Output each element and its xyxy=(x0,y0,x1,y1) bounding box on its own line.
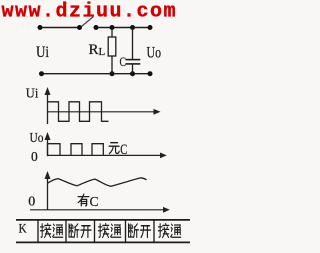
table bottom border xyxy=(16,241,190,243)
table divider 4 xyxy=(125,219,127,243)
svg-text:0: 0 xyxy=(31,149,38,164)
node: output top terminal xyxy=(148,25,153,30)
svg-text:C: C xyxy=(120,142,127,158)
waveform1 horizontal axis xyxy=(48,109,161,115)
svg-text:K: K xyxy=(19,221,28,236)
wire top-left segment xyxy=(40,27,80,29)
waveform1 vertical axis xyxy=(45,87,51,124)
table divider 3 xyxy=(94,219,96,243)
waveform2 vertical axis xyxy=(45,132,51,156)
capacitor C xyxy=(126,28,141,74)
cell 断开 1 xyxy=(69,224,79,238)
waveform2 horizontal axis xyxy=(48,153,167,159)
svg-text:Ui: Ui xyxy=(36,44,49,61)
svg-text:0: 0 xyxy=(28,194,35,209)
svg-text:Uo: Uo xyxy=(147,44,162,61)
node: resistor bottom junction xyxy=(110,71,115,76)
node: resistor top junction xyxy=(110,25,115,30)
waveform2 pulse train Uo xyxy=(48,144,104,156)
node: switch left terminal xyxy=(77,25,82,30)
node: output bottom terminal xyxy=(148,71,153,76)
node: input top terminal xyxy=(38,25,43,30)
node: input bottom terminal xyxy=(39,71,44,76)
svg-text:RL: RL xyxy=(89,42,106,58)
node: switch right terminal xyxy=(94,25,99,30)
svg-text:C: C xyxy=(120,55,127,69)
cell 断开 2 xyxy=(129,224,139,238)
label 有C xyxy=(78,194,89,206)
resistor RL xyxy=(108,28,116,74)
waveform1 square wave Ui xyxy=(48,102,109,122)
label 无C xyxy=(109,143,119,154)
wire top-right segment xyxy=(96,27,150,29)
waveform3 vertical axis xyxy=(45,171,51,210)
svg-text:Ui: Ui xyxy=(26,87,39,102)
table divider 5 xyxy=(153,219,155,243)
cell 接通 1 xyxy=(40,224,50,238)
node: capacitor bottom junction xyxy=(130,71,135,76)
table divider 2 xyxy=(65,219,67,243)
table divider 1 xyxy=(37,219,39,243)
cell 接通 2 xyxy=(98,224,108,238)
switch K lever xyxy=(82,17,94,27)
svg-text:Uo: Uo xyxy=(30,131,44,146)
node: capacitor top junction xyxy=(130,25,135,30)
svg-text:C: C xyxy=(90,194,99,209)
wire bottom xyxy=(42,73,151,75)
waveform3 ripple wave xyxy=(48,178,147,187)
cell 接通 3 xyxy=(158,224,168,238)
table top border xyxy=(16,219,190,221)
waveform3 horizontal axis xyxy=(30,207,170,213)
